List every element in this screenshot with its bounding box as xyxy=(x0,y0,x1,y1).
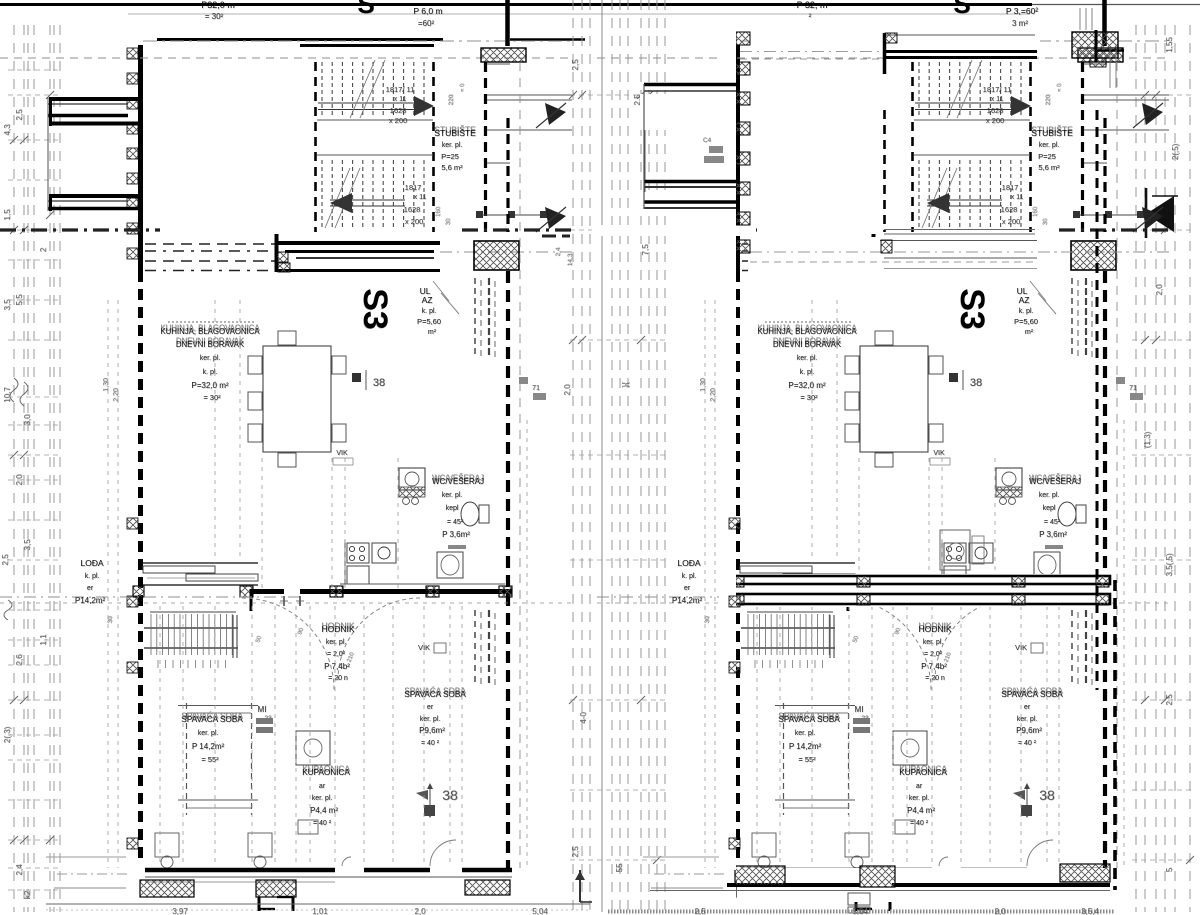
right unit door threshold gray blocks xyxy=(709,146,723,153)
right unit stair-hall top correction whiteout xyxy=(750,34,1040,50)
svg-text:1,5: 1,5 xyxy=(3,209,12,221)
right unit top right wall post xyxy=(1095,30,1098,62)
svg-text:S: S xyxy=(357,0,374,19)
svg-text:2,0: 2,0 xyxy=(994,907,1006,915)
svg-text:2,5: 2,5 xyxy=(694,907,706,915)
svg-text:2,4: 2,4 xyxy=(15,864,24,876)
svg-text:55: 55 xyxy=(615,863,624,872)
right unit stairwell left dashed wall xyxy=(883,110,886,232)
svg-text:3,5(,5): 3,5(,5) xyxy=(1165,553,1174,576)
left dimension strip dashed lines xyxy=(13,25,15,912)
right dimension strip dashed lines xyxy=(1135,25,1137,912)
left strip break marks xyxy=(10,378,18,402)
svg-text:k2: k2 xyxy=(23,890,32,899)
left strip tick slashes xyxy=(10,136,18,144)
right unit middle wall hatch blocks xyxy=(731,576,744,587)
right unit bottom wall xyxy=(727,883,860,887)
right unit top double wall xyxy=(884,50,1037,53)
svg-text:P 32, m: P 32, m xyxy=(797,0,828,10)
svg-text:2,6: 2,6 xyxy=(15,654,24,666)
section corner mark bottom left-unit xyxy=(579,870,581,902)
right unit bottom hatch blocks xyxy=(735,866,785,885)
svg-text:2: 2 xyxy=(39,247,48,252)
right unit kitchen top hatch box xyxy=(881,240,892,253)
whiteout gap section dashes xyxy=(592,225,756,236)
right strip ticks xyxy=(1141,91,1149,99)
right unit middle double wall lower band xyxy=(735,594,1110,604)
svg-text:3,0: 3,0 xyxy=(23,414,32,426)
svg-text:P 3,=60²: P 3,=60² xyxy=(1006,6,1038,16)
svg-text:2(,5): 2(,5) xyxy=(1171,143,1180,160)
right unit balcony rails whiteout xyxy=(640,94,736,130)
svg-text:C4: C4 xyxy=(703,137,712,144)
svg-text:²: ² xyxy=(809,12,812,21)
svg-text:P 6,0 m: P 6,0 m xyxy=(413,6,442,16)
svg-text:=60²: =60² xyxy=(418,19,435,28)
svg-text:2,0: 2,0 xyxy=(414,907,426,915)
right unit balcony bottom rail xyxy=(644,200,736,204)
middle separator line xyxy=(601,0,603,912)
mid-gap section line double black dashes xyxy=(542,235,570,238)
right unit left wall hatch column xyxy=(736,32,750,45)
bottom boundary line xyxy=(46,903,590,905)
right unit entrance steps bottom xyxy=(848,893,870,905)
left strip ladder rungs xyxy=(8,69,62,71)
right unit right edge dashed wall xyxy=(1113,580,1117,890)
right unit stair hall left post xyxy=(883,33,887,74)
right unit bottom area whiteout xyxy=(737,868,1115,902)
svg-text:}{: }{ xyxy=(621,382,630,388)
svg-text:2,5: 2,5 xyxy=(571,59,580,71)
svg-text:4-0: 4-0 xyxy=(579,712,588,724)
right unit top right hatch band xyxy=(1072,32,1118,58)
right unit stair hall top dash-dot pair xyxy=(740,51,884,53)
svg-text:3,5: 3,5 xyxy=(23,539,32,551)
right unit balcony left edge xyxy=(643,84,645,209)
middle strip ticks xyxy=(569,91,577,99)
svg-text:P32,0 m: P32,0 m xyxy=(201,0,235,10)
svg-text:14,3: 14,3 xyxy=(567,253,574,266)
middle strip ladder rungs xyxy=(570,94,668,96)
right unit balcony middle rail xyxy=(644,180,736,184)
svg-text:2,5: 2,5 xyxy=(15,109,24,121)
left apartment unit xyxy=(0,0,576,911)
svg-text:1,55: 1,55 xyxy=(1165,37,1174,53)
right unit kitchen top band correction whiteout xyxy=(748,237,1040,274)
right unit middle wall white underlay xyxy=(733,574,1112,607)
svg-text:5: 5 xyxy=(1165,867,1174,872)
svg-text:5,04: 5,04 xyxy=(532,907,548,915)
right unit middle double wall upper band xyxy=(735,576,1110,584)
svg-text:S: S xyxy=(953,0,970,19)
top right short wall xyxy=(1032,4,1200,6)
svg-text:= 30²: = 30² xyxy=(205,12,224,21)
right apartment unit (cloned) xyxy=(597,0,1173,911)
right strip ladder rungs xyxy=(1132,94,1194,96)
right unit desk and chair xyxy=(940,530,970,570)
right unit kitchen top thin lines xyxy=(880,240,1037,242)
top secondary thin line xyxy=(128,13,1030,15)
svg-text:(1,3): (1,3) xyxy=(1143,431,1152,448)
svg-text:3,5: 3,5 xyxy=(3,299,12,311)
svg-text:3,97: 3,97 xyxy=(172,907,188,915)
right unit top right rail triple lines xyxy=(1079,8,1081,30)
svg-text:7,5: 7,5 xyxy=(641,244,650,256)
bottom texture band right half xyxy=(608,910,1115,914)
right section arrow mark xyxy=(1146,196,1174,232)
middle dimension strip dashed lines xyxy=(572,0,574,912)
svg-text:1,01: 1,01 xyxy=(312,907,328,915)
svg-text:4,3: 4,3 xyxy=(3,124,12,136)
top wall right of stair left unit xyxy=(510,38,585,40)
right unit left wall lower hatch boxes xyxy=(729,518,740,529)
svg-text:5,04: 5,04 xyxy=(852,907,868,915)
svg-text:3 m²: 3 m² xyxy=(1012,19,1028,28)
svg-text:3,5,4: 3,5,4 xyxy=(1081,907,1099,915)
svg-text:2,0: 2,0 xyxy=(563,384,572,396)
svg-text:2,0: 2,0 xyxy=(1155,284,1164,296)
page top border line xyxy=(0,3,1032,6)
right unit left wall hatch side whiteout xyxy=(719,28,736,870)
right unit balcony top rail xyxy=(644,83,736,87)
svg-text:2,5: 2,5 xyxy=(571,846,580,858)
